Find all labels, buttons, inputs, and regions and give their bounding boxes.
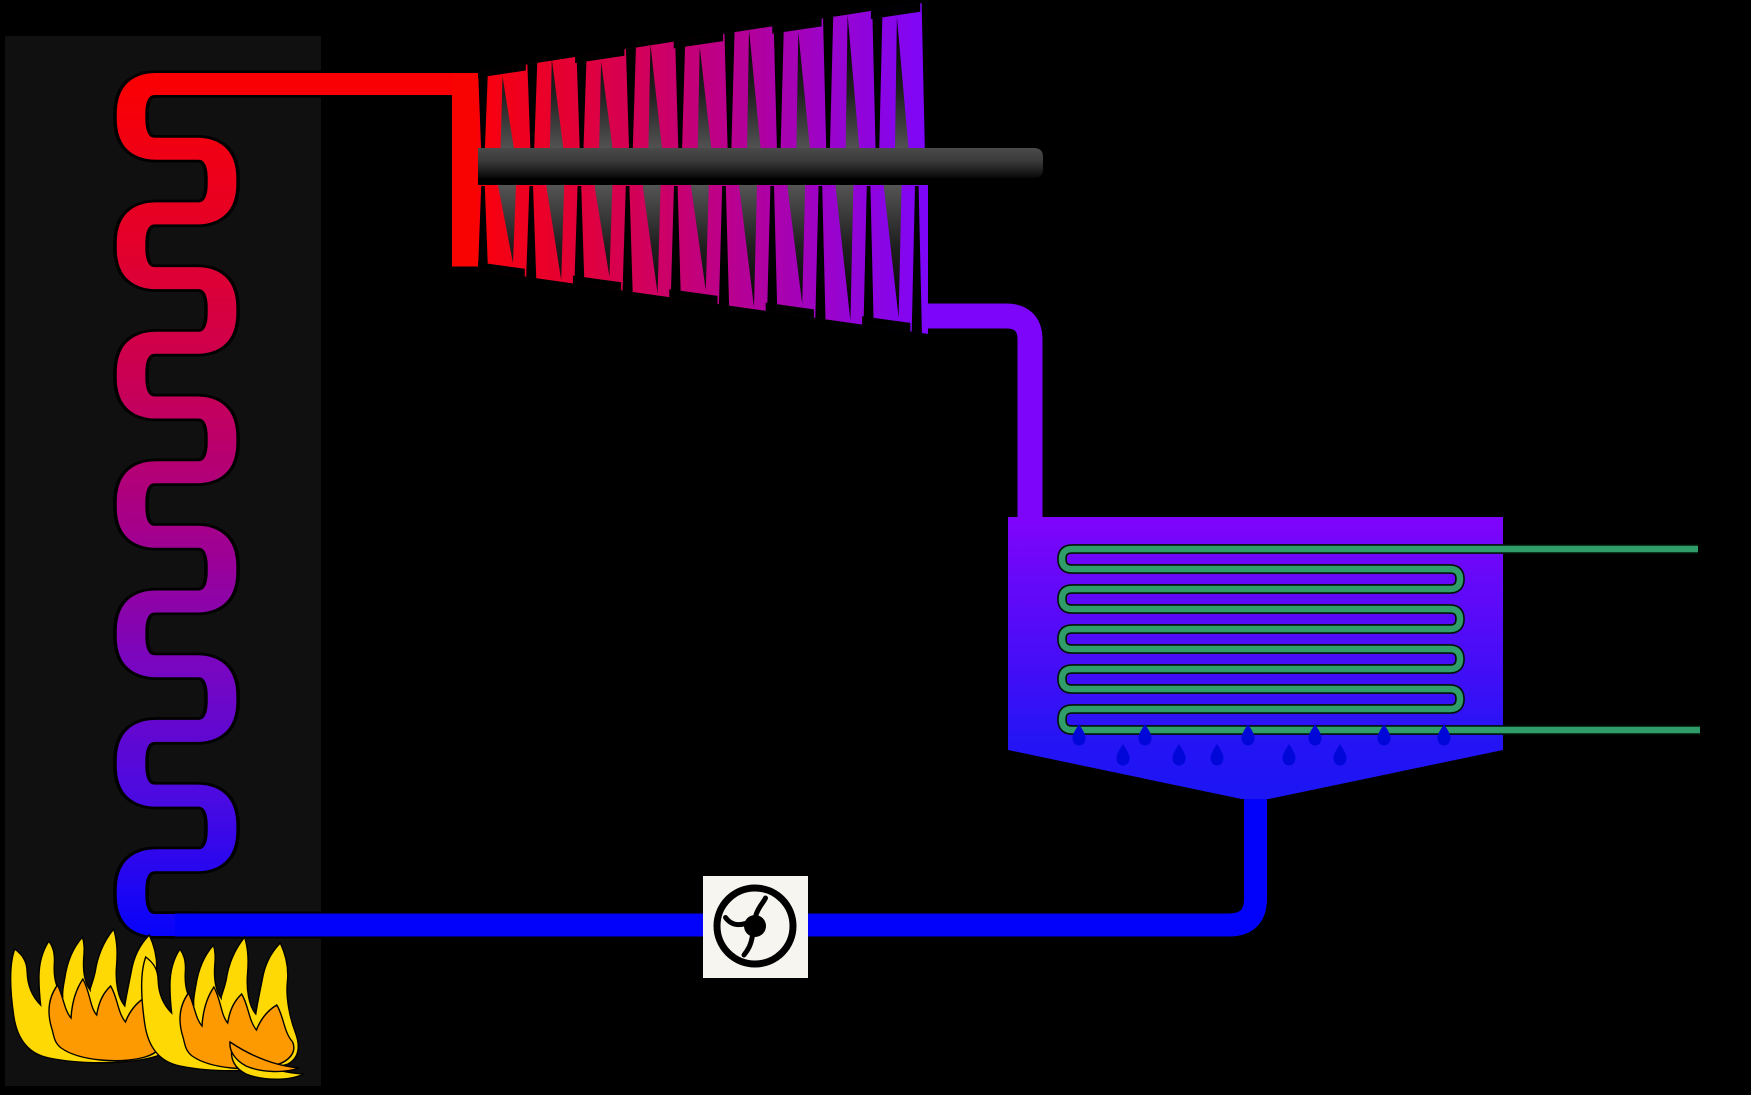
pump impeller blades: [726, 898, 766, 955]
boiler coil (serpentine heating pipe): [131, 84, 480, 925]
pump impeller hub: [744, 915, 766, 937]
flame group left: [4, 929, 170, 1063]
condenser cooling water coil: [1062, 549, 1700, 730]
flame group right: [135, 937, 301, 1071]
pipe: turbine exhaust to condenser (low pressure steam): [895, 316, 1030, 525]
boiler housing (furnace chamber): [5, 36, 321, 1086]
turbine shaft: [478, 148, 1043, 178]
condenser vessel body with funnel bottom: [1008, 517, 1503, 799]
turbine upper blade row: [477, 0, 932, 152]
condensate droplets: [1073, 724, 1451, 766]
pipe: condenser drain via pump back to boiler (feedwater): [175, 790, 1256, 925]
turbine lower blade row: [477, 185, 950, 366]
pump body (white box): [703, 876, 808, 978]
pipe: boiler outlet to turbine inlet (hot steam): [140, 72, 478, 97]
pump impeller circle: [717, 888, 793, 964]
flame tail right: [230, 1042, 304, 1079]
turbine inlet bar: [452, 74, 478, 267]
